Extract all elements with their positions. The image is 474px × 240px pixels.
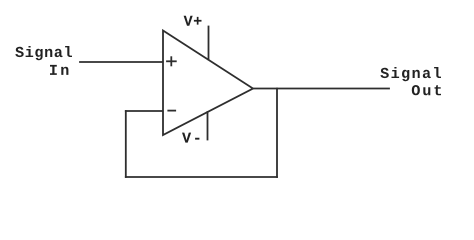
power V+ supply wire <box>208 27 210 60</box>
wire: feedback right vertical segment <box>276 89 278 178</box>
pin label + (non-inverting input) <box>167 57 176 65</box>
wire: feedback left vertical segment <box>125 111 127 177</box>
pin label - (inverting input) <box>168 110 175 112</box>
power label V- <box>182 133 199 143</box>
node Signal In label <box>15 46 72 75</box>
power V- supply wire <box>207 112 209 140</box>
node Signal Out label <box>380 67 441 95</box>
wire: input to non-inverting (+) input <box>80 61 163 63</box>
wire: feedback bottom segment <box>126 176 277 178</box>
power label V+ <box>184 16 202 26</box>
wire: feedback to inverting (-) input <box>126 110 163 112</box>
wire: output <box>253 88 389 90</box>
op-amp U1 <box>163 31 253 136</box>
